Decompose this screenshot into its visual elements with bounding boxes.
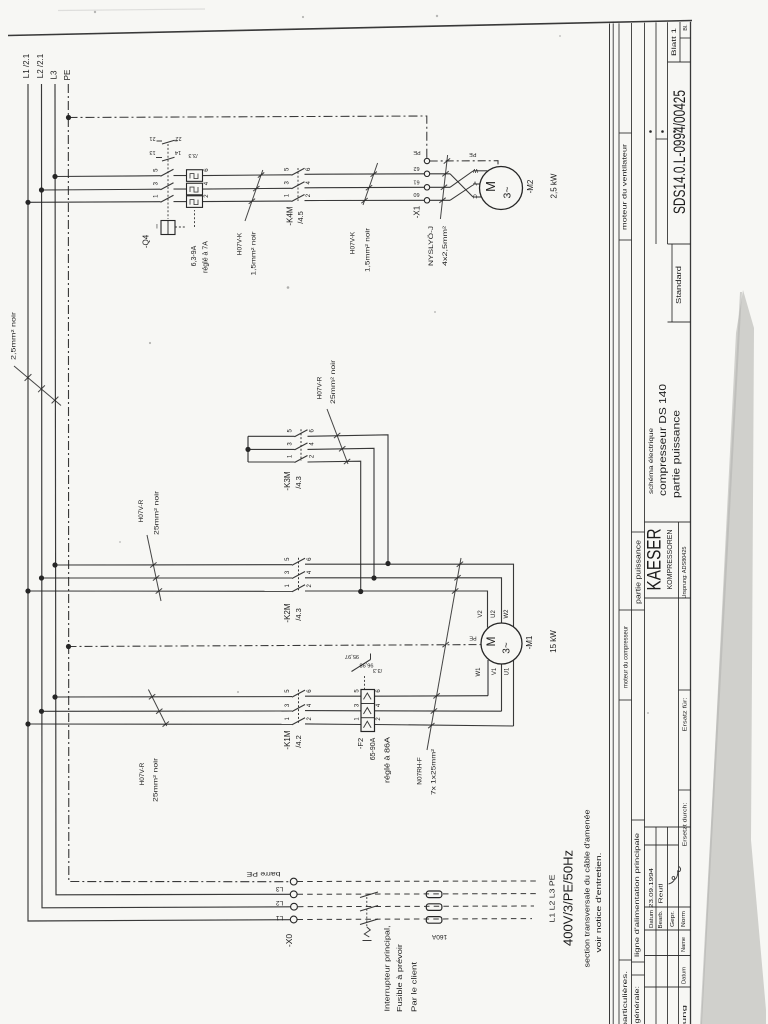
wire	[174, 188, 187, 190]
wire	[203, 174, 292, 177]
wire	[174, 175, 187, 177]
node: fan branch taps	[52, 174, 57, 179]
slash	[245, 170, 263, 221]
slash	[440, 155, 447, 219]
svg-text:voir notice d'entretien.: voir notice d'entretien.	[594, 853, 603, 953]
svg-text:Blatt 1: Blatt 1	[671, 27, 678, 56]
svg-text:400V/3/PE/50Hz: 400V/3/PE/50Hz	[560, 850, 575, 946]
scan shadow wedge	[701, 290, 766, 1024]
svg-text:partie puissance: partie puissance	[672, 409, 683, 498]
svg-text:SDS14.0.L-0994/00425: SDS14.0.L-0994/00425	[671, 90, 689, 214]
svg-text:L1: L1	[276, 914, 284, 921]
PE drop from bus to X1	[69, 116, 427, 158]
svg-text:Par le client: Par le client	[409, 961, 418, 1012]
client fuses	[426, 891, 442, 898]
PE X1 to motor M2	[430, 161, 498, 167]
svg-text:schéma électrique: schéma électrique	[649, 427, 655, 494]
svg-text:/4.3: /4.3	[294, 608, 303, 621]
svg-text:L1 L2 L3 PE: L1 L2 L3 PE	[547, 875, 556, 923]
svg-text:-M1: -M1	[525, 635, 534, 649]
svg-text:21: 21	[149, 135, 155, 141]
svg-text:PE: PE	[63, 70, 72, 81]
wire	[308, 461, 361, 591]
svg-text:-Q4: -Q4	[142, 234, 151, 248]
node: K1M taps	[52, 694, 57, 699]
svg-text:partie puissance: partie puissance	[635, 540, 642, 604]
PE to M1	[69, 645, 482, 647]
svg-text:compresseur DS 140: compresseur DS 140	[658, 383, 669, 496]
svg-text:14: 14	[175, 149, 181, 155]
svg-text:H07V-R: H07V-R	[138, 499, 145, 522]
svg-text:-K3M: -K3M	[283, 471, 292, 490]
node: K2M taps	[52, 562, 57, 567]
svg-text:moteur du compresseur: moteur du compresseur	[623, 625, 630, 688]
slash	[327, 409, 348, 464]
svg-text:-K1M: -K1M	[283, 730, 292, 749]
node: PE tap to X1	[66, 115, 71, 120]
svg-text:25mm² noir: 25mm² noir	[153, 757, 160, 802]
cable slash 2,5mm2 on supply	[14, 366, 61, 406]
svg-text:M: M	[483, 181, 498, 192]
svg-text:13: 13	[149, 149, 155, 155]
wire	[248, 448, 295, 450]
svg-text:Fusible à prévoir: Fusible à prévoir	[395, 943, 404, 1012]
svg-text:Norm: Norm	[681, 911, 687, 927]
motor-starter Q4 contact strokes	[161, 169, 174, 176]
svg-text:-X1: -X1	[413, 205, 422, 218]
svg-text:-M2: -M2	[526, 179, 535, 193]
svg-text:Reutl: Reutl	[658, 884, 664, 904]
svg-text:section transversale du câble: section transversale du câble d'amenée	[582, 810, 591, 968]
F2 aux link	[364, 676, 366, 690]
node delta joins	[385, 561, 390, 566]
svg-text:PE: PE	[469, 151, 477, 157]
svg-text:/4.2: /4.2	[294, 735, 303, 748]
svg-text:3~: 3~	[502, 642, 513, 654]
svg-text:Gepr.: Gepr.	[670, 910, 676, 927]
wire	[248, 461, 295, 463]
svg-text:KAESER: KAESER	[644, 529, 666, 591]
svg-text:61: 61	[413, 178, 419, 184]
F2 aux contact 95/96 97/98	[352, 660, 371, 672]
title block border lines	[609, 24, 611, 1024]
wire	[305, 186, 425, 188]
wire	[203, 200, 292, 203]
faint scan streak top-left	[58, 9, 205, 11]
K2M linkage	[298, 558, 300, 591]
svg-text:U2: U2	[491, 610, 497, 618]
svg-text:7x 1x25mm²: 7x 1x25mm²	[431, 748, 438, 795]
frame top border (landscape right border)	[8, 21, 692, 36]
K1M outputs to F2	[305, 695, 361, 697]
svg-text:H07V-R: H07V-R	[139, 762, 146, 785]
svg-text:H07V-K: H07V-K	[237, 232, 244, 255]
F2 outputs to M1 main terminals	[375, 695, 489, 698]
svg-text:96,98: 96,98	[359, 662, 373, 668]
wire	[305, 591, 488, 628]
Q4 linkage to actuator	[167, 144, 169, 219]
svg-text:1,5mm² noir: 1,5mm² noir	[251, 230, 258, 275]
wire	[308, 448, 375, 578]
svg-text:réglé à 86A: réglé à 86A	[384, 737, 391, 783]
svg-text:-X0: -X0	[284, 934, 294, 948]
terminal strip X0	[290, 878, 297, 885]
svg-text:23.09.1994: 23.09.1994	[649, 868, 655, 908]
svg-text:-F2: -F2	[356, 738, 365, 749]
svg-text:Interrupteur principal,: Interrupteur principal,	[382, 926, 391, 1012]
svg-text:15 kW: 15 kW	[549, 630, 558, 653]
contactor K4M	[292, 168, 305, 175]
svg-text:NYSLYÖ-J: NYSLYÖ-J	[427, 226, 435, 266]
svg-text:PE: PE	[469, 635, 477, 641]
svg-text:barre PE: barre PE	[246, 870, 281, 877]
supply line L2	[42, 84, 291, 908]
client cable dashed lines	[298, 880, 539, 883]
svg-text:L1 /2.1: L1 /2.1	[22, 53, 31, 78]
revision dots	[649, 130, 652, 133]
contactor K3M contact strokes	[295, 430, 308, 437]
fan branch wires (left of Q4)	[55, 175, 161, 178]
svg-text:ion générale:: ion générale:	[635, 986, 641, 1024]
svg-text:KOMPRESSOREN: KOMPRESSOREN	[667, 530, 674, 590]
svg-text:N07RH-F: N07RH-F	[417, 757, 424, 784]
wire	[305, 578, 502, 623]
supply line PE (dash-dot)	[68, 84, 290, 882]
node: PE tap to M1	[66, 644, 71, 649]
svg-text:V2: V2	[478, 610, 484, 618]
Q4 actuator	[161, 221, 175, 235]
svg-text:2,5mm² noir: 2,5mm² noir	[11, 311, 18, 360]
svg-text:L3: L3	[276, 885, 284, 892]
svg-text:ligne d'alimentation principal: ligne d'alimentation principale	[634, 832, 641, 957]
client main switch	[360, 892, 378, 898]
svg-text:6,3-9A: 6,3-9A	[191, 245, 198, 266]
svg-text:U: U	[473, 193, 477, 199]
supply line L3	[55, 84, 290, 895]
svg-text:W: W	[472, 167, 478, 173]
svg-text:W2: W2	[504, 609, 510, 619]
svg-text:Ersatz für:: Ersatz für:	[682, 697, 688, 732]
svg-text:M: M	[484, 637, 498, 647]
svg-text:V: V	[473, 180, 477, 186]
K1M linkage	[298, 690, 300, 724]
wire	[305, 199, 425, 201]
slash	[427, 558, 461, 750]
svg-text:4x2,5mm²: 4x2,5mm²	[442, 225, 449, 266]
svg-text:25mm² noir: 25mm² noir	[154, 490, 161, 535]
svg-text:réglé à 7A: réglé à 7A	[202, 241, 209, 273]
svg-text:/4.5: /4.5	[296, 211, 305, 224]
svg-text:-K4M: -K4M	[286, 206, 295, 225]
Q4 auxiliary contacts 21/22 13/14	[157, 140, 163, 142]
svg-text:65-90A: 65-90A	[370, 737, 377, 760]
svg-text:Datum: Datum	[649, 910, 655, 928]
svg-text:3~: 3~	[501, 187, 513, 199]
svg-text:95,97: 95,97	[345, 653, 359, 659]
contactor K1M contact strokes	[292, 690, 305, 697]
terminal strip X1	[424, 158, 429, 163]
motor M1	[481, 623, 522, 664]
svg-text:25mm² noir: 25mm² noir	[330, 359, 337, 404]
wire	[174, 201, 187, 203]
svg-text:W1: W1	[476, 667, 482, 677]
faint speck near top center	[436, 15, 438, 17]
K3M star point bus	[247, 436, 249, 462]
svg-text:Datum: Datum	[681, 967, 687, 984]
slash	[147, 535, 161, 601]
K4M linkage	[297, 168, 299, 201]
slash	[148, 690, 166, 727]
svg-text:moteur du ventilateur: moteur du ventilateur	[622, 143, 629, 230]
wire	[248, 435, 295, 437]
svg-text:Name: Name	[681, 937, 687, 952]
svg-text:L3: L3	[50, 70, 59, 79]
svg-text:Bl.: Bl.	[683, 24, 689, 31]
svg-text:1,5mm² noir: 1,5mm² noir	[365, 227, 372, 272]
overload relay F2	[361, 690, 375, 732]
svg-text:/3.3: /3.3	[188, 152, 197, 158]
wire	[308, 435, 389, 564]
wire crossing to M2 terminals	[430, 173, 450, 175]
svg-text:160A: 160A	[431, 933, 447, 940]
svg-text:U1: U1	[505, 667, 511, 675]
svg-text:Änderung: Änderung	[681, 1005, 688, 1024]
svg-text:2,5 kW: 2,5 kW	[550, 173, 559, 198]
svg-text:L2: L2	[276, 899, 284, 906]
svg-text:Standard: Standard	[674, 266, 683, 304]
wire	[305, 173, 425, 175]
svg-text:/3.3: /3.3	[373, 667, 382, 673]
Q4 trip link dashes	[175, 226, 187, 228]
svg-text:PE: PE	[413, 149, 421, 155]
svg-text:Ersetzt durch:: Ersetzt durch:	[682, 802, 688, 847]
contactor K2M input wires	[55, 564, 292, 566]
svg-text:22: 22	[175, 135, 181, 141]
svg-text:H07V-K: H07V-K	[350, 231, 357, 254]
K3M linkage	[300, 429, 302, 461]
svg-text:L2 /2.1: L2 /2.1	[36, 53, 45, 78]
svg-text:V1: V1	[492, 667, 498, 675]
M1 lower terminal stubs	[487, 660, 489, 696]
supply line L1	[28, 84, 291, 921]
svg-text:/4.3: /4.3	[294, 476, 303, 489]
motor M2	[480, 167, 523, 210]
wire	[203, 187, 292, 190]
scan specks	[94, 11, 96, 13]
signature squiggle	[669, 867, 681, 885]
svg-text:Ursprung: ADS80425: Ursprung: ADS80425	[682, 546, 688, 598]
wire	[305, 564, 514, 627]
svg-text:H07V-R: H07V-R	[317, 376, 324, 399]
contactor K1M input wires	[55, 696, 292, 698]
svg-text:Bearb.: Bearb.	[658, 910, 664, 929]
slash	[363, 163, 378, 205]
contactor K2M contact strokes	[292, 558, 305, 565]
svg-text:-K2M: -K2M	[283, 603, 292, 622]
svg-text:es particulières.: es particulières.	[623, 970, 629, 1024]
svg-text:62: 62	[413, 165, 419, 171]
switch linkage	[366, 897, 368, 927]
svg-text:60: 60	[413, 191, 419, 197]
